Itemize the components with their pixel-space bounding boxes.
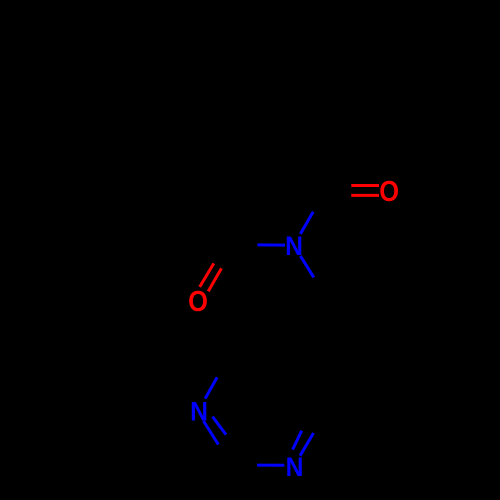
svg-text:O: O: [188, 285, 208, 318]
svg-text:N: N: [285, 232, 303, 261]
wire: bond N(imide) to left carbonyl C (blue half): [257, 243, 285, 246]
wire: double bond N1=C6 inner line (blue half): [293, 431, 302, 450]
wire: double bond C=O top, upper line (red half): [351, 184, 379, 187]
wire: double bond N3=C2 main line (blue half): [204, 421, 219, 445]
wire: double bond C=O left, west line (red half): [200, 263, 214, 287]
wire: bond N(imide) to CH2 (blue half): [300, 256, 313, 278]
wire: double bond N1=C6 main line (blue half): [300, 433, 314, 456]
wire: bond N(imide) to top carbonyl C (blue half): [300, 212, 313, 234]
svg-text:N: N: [286, 453, 304, 482]
wire: double bond C=O left, east line (red half): [208, 268, 221, 291]
wire: bond N1(pyrimidine) to C2 (blue half): [257, 464, 284, 467]
wire: double bond N3=C2 inner line (blue half): [213, 417, 227, 435]
wire: bond N3(pyrimidine) to C4 (blue half): [205, 377, 217, 398]
svg-text:O: O: [379, 175, 399, 208]
wire: double bond C=O top, lower line (red half): [351, 194, 379, 197]
svg-text:N: N: [190, 398, 208, 427]
